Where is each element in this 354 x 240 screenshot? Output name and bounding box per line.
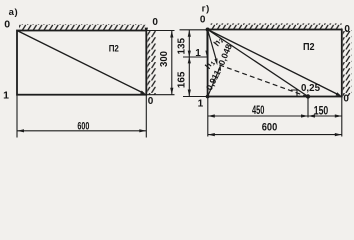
extension line right of bottom-right bbox=[146, 94, 174, 96]
svg-text:0: 0 bbox=[148, 96, 154, 107]
svg-text:г): г) bbox=[202, 3, 210, 14]
arrowhead of diagonal at bottom-right bbox=[140, 91, 146, 95]
main diagonal 0-0 bbox=[208, 30, 340, 96]
svg-text:0: 0 bbox=[200, 15, 206, 26]
junction dot bottom-left bbox=[206, 95, 210, 99]
hatching top edge bbox=[19, 24, 146, 30]
dashed line from depth-135 point to point 450 bbox=[219, 65, 308, 97]
extension line right of top-right bbox=[146, 30, 174, 32]
svg-text:П2: П2 bbox=[109, 44, 119, 55]
extension below bottom-left bbox=[207, 97, 209, 137]
hatching right edge bbox=[343, 30, 352, 96]
right-angle mark near 450 point bbox=[291, 90, 297, 96]
diagonal 0-0 bbox=[17, 31, 144, 94]
solid line to point 450 bbox=[208, 30, 308, 97]
tick at depth 135 level bbox=[183, 56, 208, 58]
extension line below bottom-left bbox=[16, 95, 18, 138]
h2 ordinate arrow from top-left down to dashed line bbox=[208, 30, 217, 61]
hatching right edge bbox=[147, 31, 156, 95]
tick top-left corner bbox=[180, 29, 208, 31]
svg-text:П2: П2 bbox=[303, 42, 315, 53]
svg-text:0,25: 0,25 bbox=[301, 83, 320, 94]
arrowhead of main diagonal at bottom-right bbox=[336, 92, 342, 96]
svg-text:1: 1 bbox=[198, 99, 204, 110]
tick bottom-left corner bbox=[183, 96, 208, 98]
panel rectangle bbox=[208, 30, 342, 97]
panel rectangle bbox=[17, 31, 146, 95]
svg-text:300: 300 bbox=[159, 51, 170, 67]
extension below bottom-right bbox=[341, 97, 343, 137]
svg-text:0: 0 bbox=[152, 17, 158, 28]
hatching top edge bbox=[210, 23, 342, 29]
dimension line 450/150 bbox=[208, 115, 342, 117]
dimension line 300 bbox=[171, 31, 173, 95]
dimension line 600 bbox=[17, 130, 146, 132]
svg-text:1: 1 bbox=[195, 48, 201, 59]
dimension line 600 bbox=[208, 134, 342, 136]
svg-text:600: 600 bbox=[262, 122, 278, 134]
ordinate-1 arrow on left edge bbox=[206, 30, 208, 56]
svg-text:600: 600 bbox=[77, 120, 89, 132]
svg-text:165: 165 bbox=[177, 71, 188, 88]
svg-text:450: 450 bbox=[252, 105, 265, 117]
svg-text:150: 150 bbox=[314, 105, 329, 117]
junction dot at 450 point bbox=[306, 94, 310, 98]
svg-text:135: 135 bbox=[176, 38, 187, 55]
left dimension line (135/165) bbox=[188, 30, 190, 97]
arrow down at top-right corner bbox=[145, 28, 148, 34]
h1 ordinate arrow from bottom-left up to dashed line bbox=[208, 68, 220, 96]
extension below 450 point bbox=[307, 97, 309, 118]
extension line below bottom-right bbox=[145, 95, 147, 138]
svg-text:1: 1 bbox=[3, 90, 9, 102]
junction dot top-left bbox=[206, 28, 210, 32]
svg-text:0: 0 bbox=[4, 18, 10, 30]
svg-text:а): а) bbox=[9, 7, 19, 18]
svg-text:0: 0 bbox=[344, 24, 350, 35]
svg-text:0: 0 bbox=[343, 94, 349, 105]
